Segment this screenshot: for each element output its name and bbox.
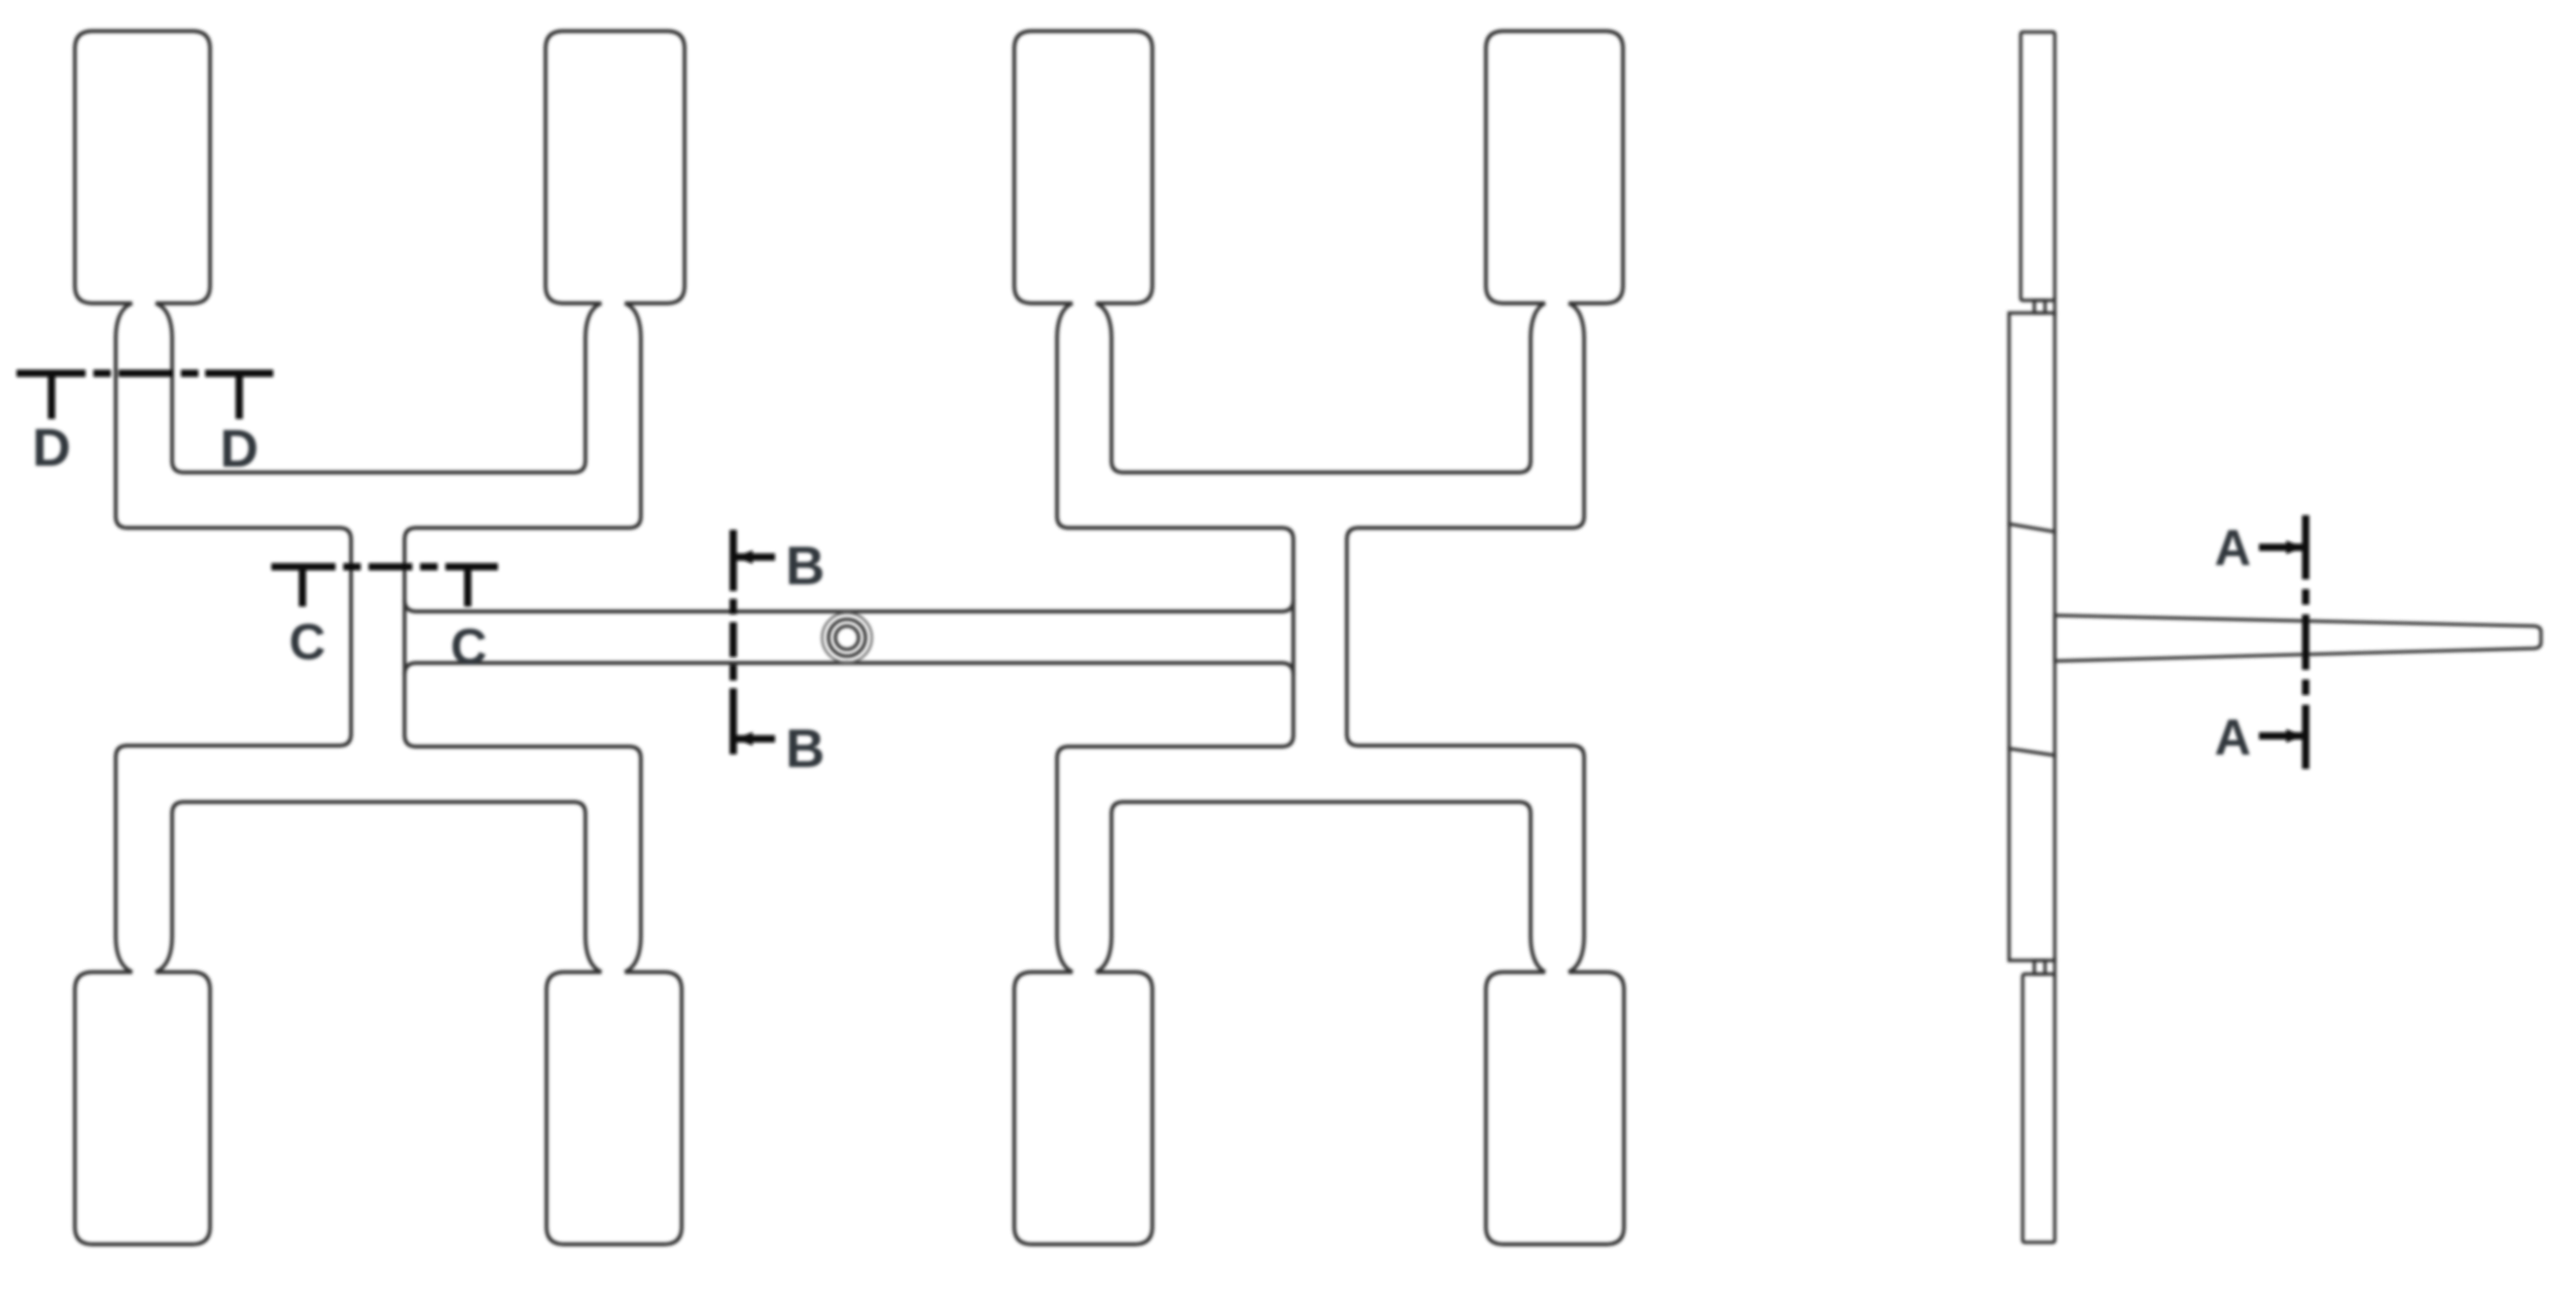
sprue outer circle bbox=[823, 613, 872, 663]
runner lower-left sub-runner bottom wall: cavity5 gate to cavity6 gate bbox=[156, 802, 602, 972]
runner lower-right sub-runner bottom wall: cavity7 gate to cavity8 gate bbox=[1096, 802, 1545, 972]
runner upper-left sub-runner top wall: cavity1 gate to cavity2 gate bbox=[156, 303, 602, 472]
side view right edge connector top bbox=[2053, 297, 2056, 316]
section A-A bottom tick bbox=[2259, 732, 2303, 740]
cavity 7 bbox=[1014, 972, 1152, 1244]
svg-text:D: D bbox=[32, 417, 71, 477]
section B-B top tick bbox=[735, 553, 775, 561]
section line B-B bbox=[733, 530, 775, 754]
cavity 1 (top-left) bbox=[75, 31, 210, 303]
svg-text:D: D bbox=[220, 418, 259, 478]
side view plate 4 bbox=[2009, 749, 2055, 960]
side view tapered sprue bar bbox=[2055, 615, 2541, 661]
side view right edge connector bottom bbox=[2053, 958, 2056, 977]
section line A-A chain line bbox=[2302, 515, 2310, 769]
section A-A bottom arrowhead bbox=[2286, 729, 2304, 743]
svg-text:B: B bbox=[786, 535, 825, 596]
cavity 3 bbox=[1014, 31, 1152, 303]
cavity 8 bbox=[1486, 972, 1624, 1244]
section B-B bottom arrowhead bbox=[735, 732, 753, 746]
main runner bar left end cap bbox=[403, 599, 406, 676]
side view plate 2 bbox=[2009, 313, 2055, 532]
sprue circle in plan view bbox=[823, 613, 872, 663]
section line D-D chain line bbox=[17, 369, 273, 377]
svg-text:B: B bbox=[786, 717, 825, 779]
section B-B top arrowhead bbox=[735, 550, 753, 564]
sprue middle circle bbox=[829, 619, 865, 656]
section line B-B chain line bbox=[729, 530, 737, 754]
cavity 5 (bottom-left) bbox=[75, 972, 210, 1244]
side view gate stub top bbox=[2034, 300, 2045, 313]
section C-C left tick bbox=[299, 569, 306, 607]
svg-text:C: C bbox=[450, 619, 487, 676]
svg-text:A: A bbox=[2214, 710, 2251, 766]
side view runner plate bbox=[2009, 524, 2055, 755]
section D-D left tick bbox=[48, 375, 55, 419]
section line C-C chain line bbox=[271, 563, 498, 571]
runner outer wall: cavity1 gate, left branch wall, cavity5 gate bbox=[116, 303, 351, 972]
cavity 2 bbox=[546, 31, 685, 303]
section D-D right tick bbox=[235, 375, 243, 419]
section line A-A bbox=[2259, 515, 2306, 769]
runner main bar bottom wall: cavity6 gate to cavity7 gate bbox=[405, 663, 1293, 972]
main runner bar right end cap bbox=[1291, 599, 1295, 676]
side view gate stub bottom bbox=[2034, 960, 2045, 974]
side view plates bbox=[2009, 32, 2541, 1242]
cavity 6 bbox=[547, 972, 682, 1244]
svg-text:C: C bbox=[289, 614, 326, 671]
runner upper-right sub-runner top wall: cavity3 gate to cavity4 gate bbox=[1096, 303, 1545, 472]
runner main bar top wall: cavity2 gate to cavity3 gate bbox=[405, 303, 1293, 611]
sprue inner circle bbox=[835, 626, 859, 649]
section C-C right tick bbox=[464, 569, 472, 607]
section line D-D bbox=[17, 373, 273, 419]
section line C-C bbox=[271, 567, 498, 607]
side view top cavity plate bbox=[2021, 32, 2055, 300]
section A-A top tick bbox=[2259, 543, 2303, 551]
side view bottom cavity plate bbox=[2023, 974, 2055, 1242]
cavity 4 bbox=[1486, 31, 1623, 303]
svg-text:A: A bbox=[2214, 520, 2251, 576]
section A-A top arrowhead bbox=[2286, 540, 2304, 554]
section B-B bottom tick bbox=[735, 735, 775, 743]
runner outer wall right: cavity4 gate, right branch wall, cavity8 gate bbox=[1347, 303, 1584, 972]
